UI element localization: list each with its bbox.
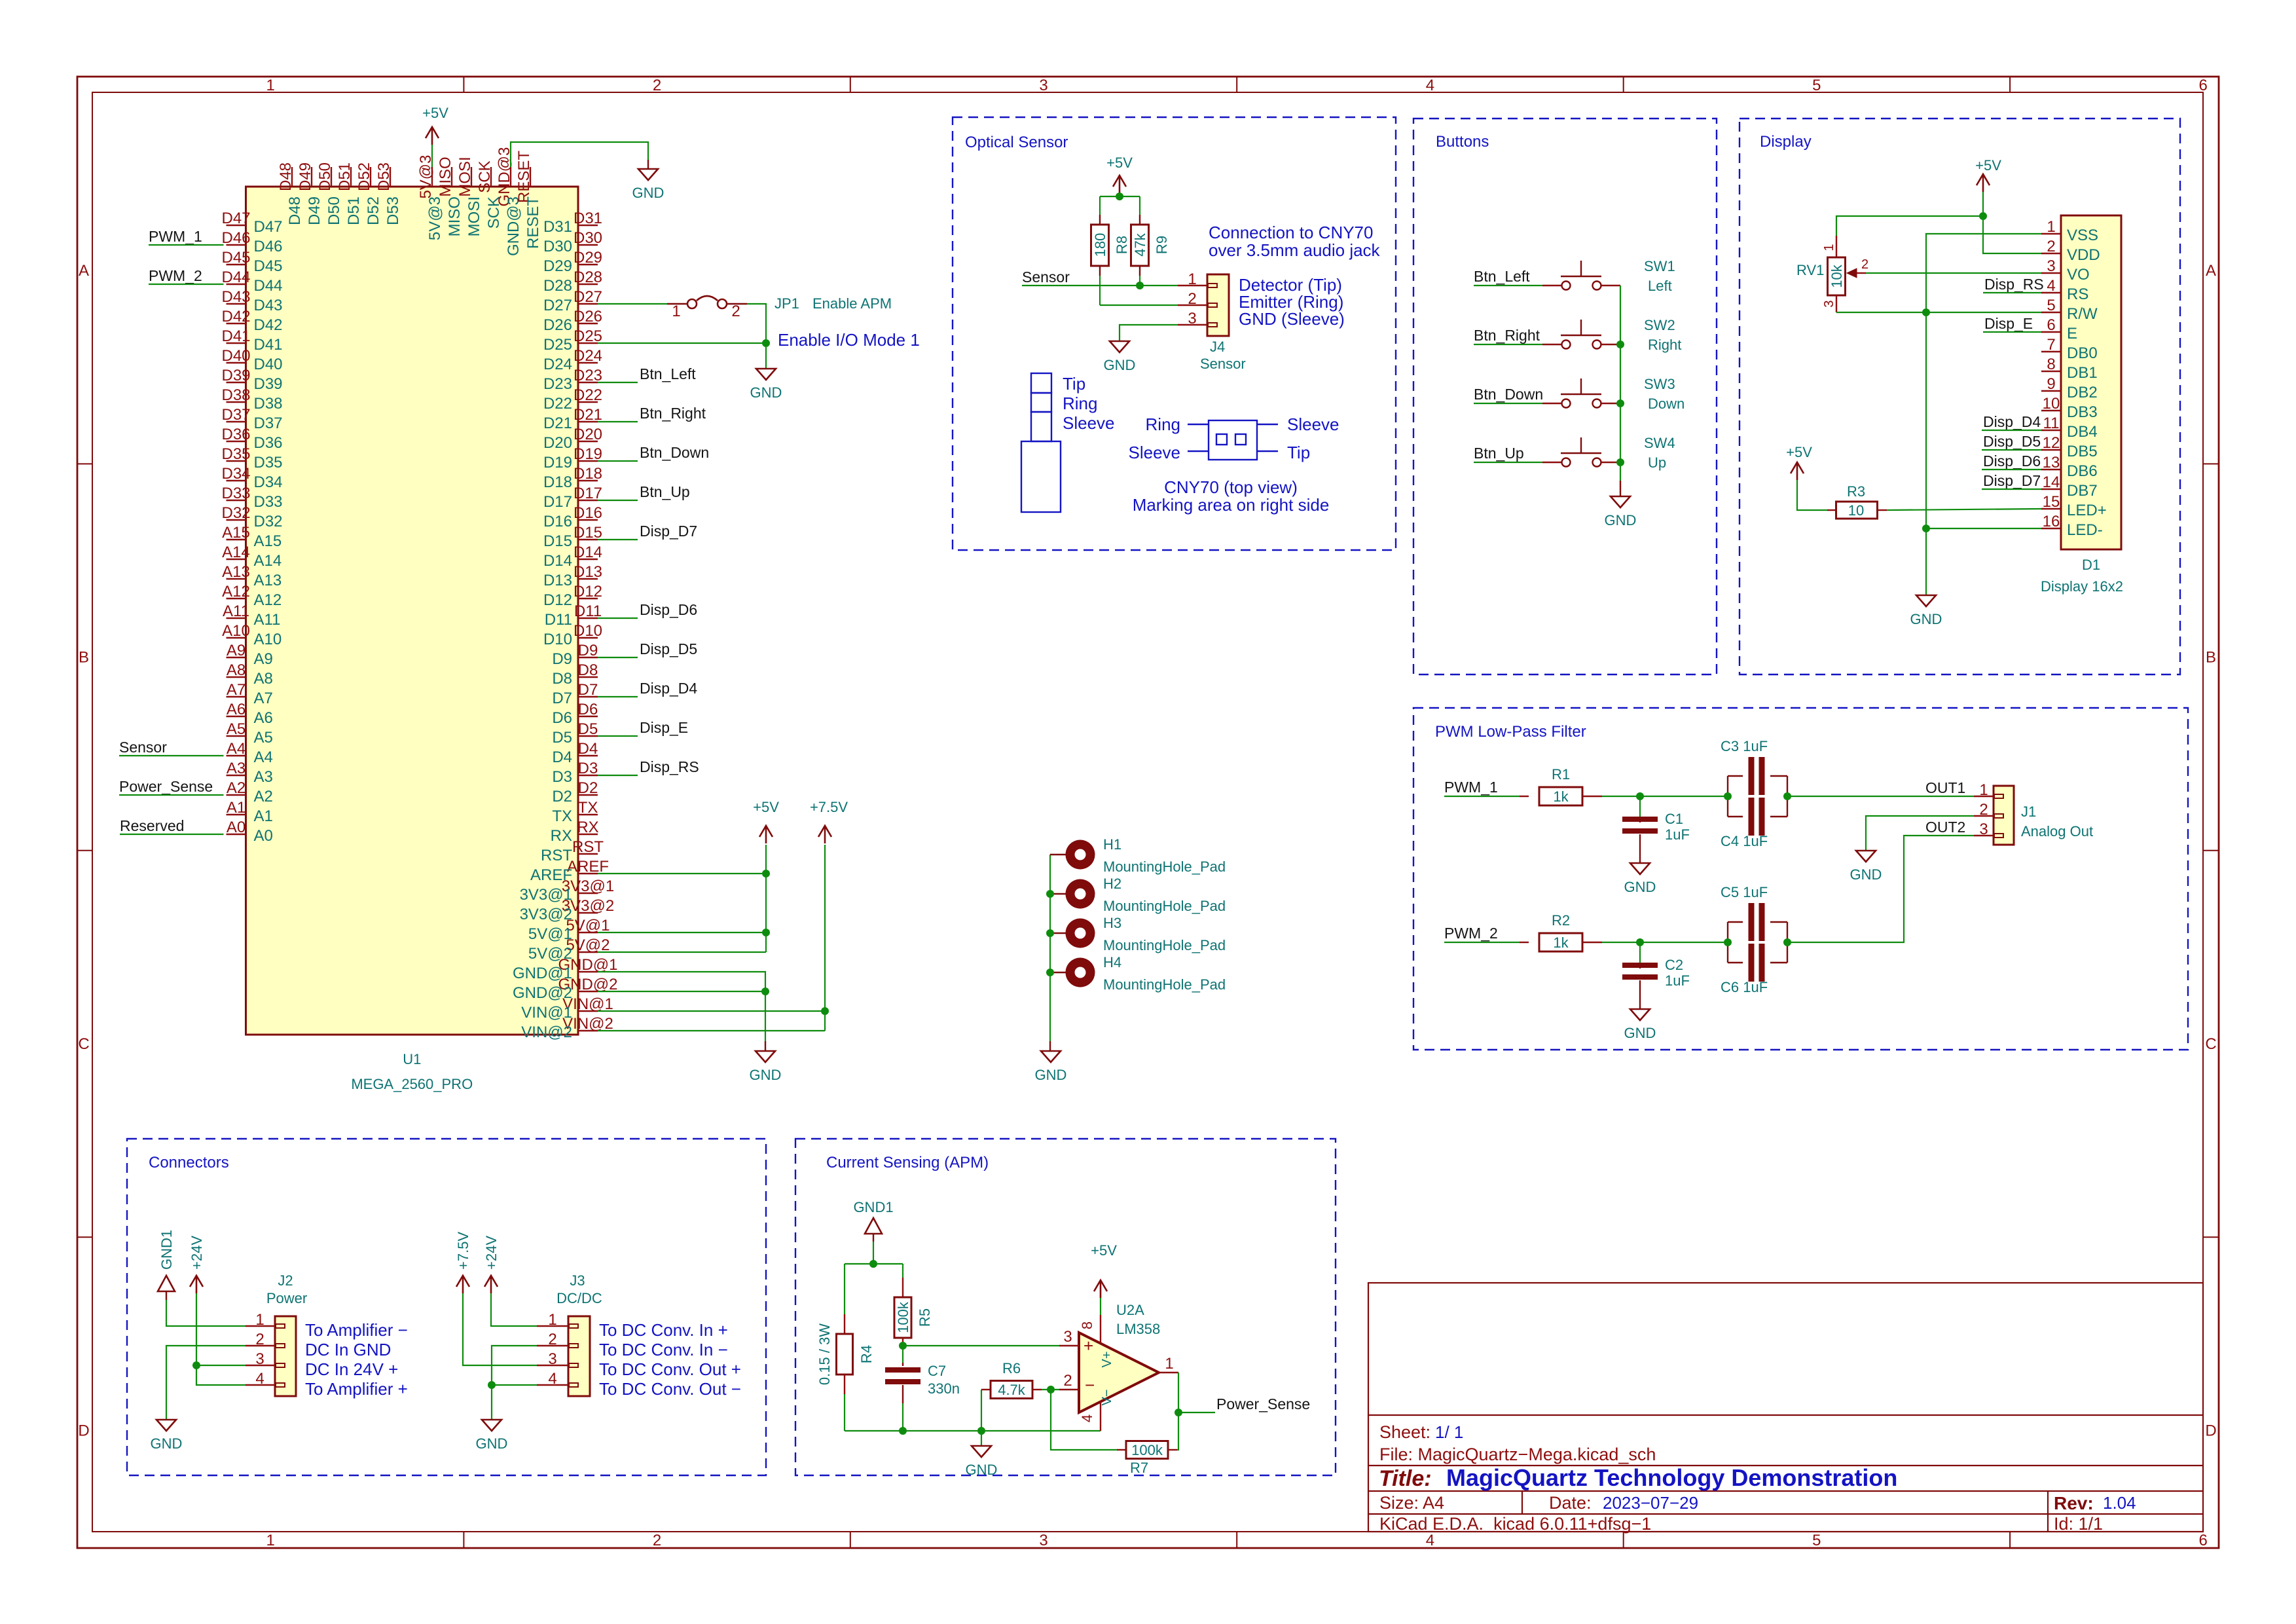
display D1 body bbox=[2061, 215, 2121, 549]
svg-text:5: 5 bbox=[2047, 297, 2055, 314]
U1 right pin D17 bbox=[578, 500, 598, 501]
svg-text:H1: H1 bbox=[1103, 836, 1121, 853]
D1 pin 3 VO bbox=[2041, 272, 2061, 274]
svg-text:V+: V+ bbox=[1100, 1351, 1114, 1367]
svg-text:Date:: Date: bbox=[1549, 1493, 1592, 1513]
wire PWM_2 to D44 bbox=[149, 284, 224, 285]
svg-text:2: 2 bbox=[1063, 1372, 1072, 1390]
wire C1 to ground bbox=[1639, 844, 1641, 863]
svg-text:16: 16 bbox=[2043, 513, 2060, 530]
wire Disp_E to pin6 bbox=[1983, 331, 2041, 333]
svg-text:D36: D36 bbox=[221, 426, 250, 443]
svg-text:V−: V− bbox=[1100, 1389, 1114, 1405]
svg-text:Sleeve: Sleeve bbox=[1287, 415, 1339, 434]
svg-text:Analog Out: Analog Out bbox=[2021, 823, 2093, 840]
svg-text:D49: D49 bbox=[306, 196, 323, 225]
svg-text:DC/DC: DC/DC bbox=[556, 1290, 602, 1306]
svg-text:A4: A4 bbox=[254, 748, 273, 766]
svg-text:Btn_Left: Btn_Left bbox=[640, 365, 696, 382]
svg-text:GND: GND bbox=[1910, 611, 1942, 627]
svg-text:PWM_1: PWM_1 bbox=[149, 228, 202, 245]
U2A pin 4 (V-) bbox=[1100, 1401, 1101, 1431]
svg-text:Power_Sense: Power_Sense bbox=[119, 778, 213, 795]
svg-text:PWM_2: PWM_2 bbox=[1444, 925, 1498, 942]
U1 right pin D15 bbox=[578, 539, 598, 540]
IC U1 MEGA_2560_PRO body bbox=[246, 187, 579, 1035]
mounting hole H4 bbox=[1066, 958, 1095, 987]
svg-text:JP1: JP1 bbox=[774, 295, 799, 312]
svg-text:6: 6 bbox=[2199, 1532, 2208, 1549]
svg-text:1: 1 bbox=[548, 1311, 556, 1329]
wire +5V down bbox=[1982, 192, 1984, 216]
svg-text:Disp_D7: Disp_D7 bbox=[640, 523, 697, 540]
svg-text:R7: R7 bbox=[1130, 1460, 1148, 1476]
svg-text:A15: A15 bbox=[222, 524, 250, 542]
svg-text:Btn_Right: Btn_Right bbox=[640, 405, 706, 422]
U1 right pin RX bbox=[578, 834, 598, 835]
U1 right pin D5 bbox=[578, 735, 598, 737]
junction bbox=[1783, 938, 1791, 946]
ground symbol J3 bbox=[482, 1420, 501, 1431]
U1 right pin D11 bbox=[578, 618, 598, 619]
wire +24V to J3 pin1 bbox=[491, 1293, 537, 1326]
U1 right pin 5V@1 bbox=[578, 932, 598, 933]
svg-text:4: 4 bbox=[1426, 1532, 1434, 1549]
U1 left pin A15 bbox=[227, 539, 246, 540]
U1 left pin A2 bbox=[227, 794, 246, 796]
ground symbol below mounting holes bbox=[1041, 1051, 1061, 1062]
svg-text:DB7: DB7 bbox=[2067, 482, 2098, 500]
svg-text:DB5: DB5 bbox=[2067, 443, 2098, 460]
svg-text:Connectors: Connectors bbox=[149, 1154, 229, 1172]
svg-text:GND: GND bbox=[1104, 357, 1136, 373]
svg-text:J1: J1 bbox=[2021, 803, 2036, 820]
svg-text:SW2: SW2 bbox=[1644, 317, 1675, 333]
wire C3/C4 to J1 pin1 bbox=[1787, 796, 1974, 797]
svg-text:To DC Conv. Out +: To DC Conv. Out + bbox=[599, 1359, 741, 1379]
wire R9 to node bbox=[1139, 276, 1140, 286]
wire feedback down bbox=[1051, 1390, 1117, 1450]
wire Sensor to A4 bbox=[119, 755, 224, 756]
svg-text:+: + bbox=[1084, 1336, 1093, 1356]
junction bbox=[1047, 1386, 1055, 1393]
U1 right pin D12 bbox=[578, 598, 598, 599]
svg-text:Btn_Up: Btn_Up bbox=[1474, 445, 1524, 462]
svg-text:D28: D28 bbox=[543, 277, 572, 295]
U1 right pin AREF bbox=[578, 873, 598, 874]
wire +5V to RV1 bbox=[1836, 216, 1983, 236]
U1 right pin 3V3@2 bbox=[578, 912, 598, 913]
capacitor C3 1uF (top of bridge) bbox=[1727, 776, 1728, 796]
U1 top pin D50 bbox=[331, 167, 332, 187]
U1 right pin D8 bbox=[578, 676, 598, 678]
svg-text:MountingHole_Pad: MountingHole_Pad bbox=[1103, 937, 1226, 953]
svg-text:3V3@2: 3V3@2 bbox=[520, 906, 572, 923]
svg-text:Tip: Tip bbox=[1063, 374, 1085, 394]
svg-text:GND (Sleeve): GND (Sleeve) bbox=[1239, 309, 1345, 329]
svg-text:GND: GND bbox=[966, 1462, 998, 1478]
capacitor C5 1uF (top of bridge) bbox=[1727, 922, 1728, 942]
svg-text:R5: R5 bbox=[917, 1308, 933, 1327]
connector J1 body bbox=[1994, 786, 2014, 845]
connector J4 body bbox=[1207, 274, 1229, 336]
junction bbox=[899, 1427, 907, 1435]
wire Disp_D7 to D1 bbox=[1982, 489, 2041, 490]
svg-text:+5V: +5V bbox=[1975, 157, 2001, 174]
svg-text:D28: D28 bbox=[574, 268, 602, 286]
svg-text:3: 3 bbox=[2047, 257, 2055, 275]
svg-text:D42: D42 bbox=[221, 308, 250, 325]
svg-text:D10: D10 bbox=[574, 622, 602, 640]
U1 left pin D35 bbox=[227, 460, 246, 462]
svg-text:D21: D21 bbox=[543, 415, 572, 432]
svg-text:DB0: DB0 bbox=[2067, 344, 2098, 362]
U1 left pin A9 bbox=[227, 657, 246, 658]
svg-text:+7.5V: +7.5V bbox=[810, 799, 848, 815]
ground symbol APM bbox=[972, 1446, 991, 1457]
op-amp U2A LM358 bbox=[1079, 1333, 1159, 1412]
resistor R3 bbox=[1827, 509, 1836, 511]
svg-text:C5 1uF: C5 1uF bbox=[1721, 884, 1768, 900]
U1 top pin SCK bbox=[490, 167, 492, 187]
svg-text:D1: D1 bbox=[2082, 557, 2100, 573]
svg-text:D32: D32 bbox=[221, 504, 250, 522]
ground symbol J2 bbox=[156, 1420, 176, 1431]
wire D-pin to Btn_Up bbox=[598, 500, 638, 501]
capacitor C6 1uF (bottom of bridge) bbox=[1727, 942, 1728, 963]
U1 right pin VIN@1 bbox=[578, 1010, 598, 1012]
svg-text:D38: D38 bbox=[221, 386, 250, 404]
ground symbol C2 bbox=[1630, 1009, 1650, 1020]
svg-text:A13: A13 bbox=[222, 563, 250, 581]
svg-text:GND@3: GND@3 bbox=[505, 196, 522, 256]
U1 left pin D36 bbox=[227, 441, 246, 442]
svg-text:D50: D50 bbox=[316, 162, 334, 191]
U1 right pin D30 bbox=[578, 244, 598, 246]
svg-text:3: 3 bbox=[1979, 821, 1988, 838]
svg-text:D5: D5 bbox=[552, 729, 572, 747]
U1 left pin A0 bbox=[227, 834, 246, 835]
title block bbox=[1368, 1283, 2203, 1532]
U1 right pin D29 bbox=[578, 264, 598, 265]
switch SW4 Up bbox=[1542, 462, 1561, 463]
junction bbox=[1922, 525, 1930, 532]
wire to R9 bbox=[1139, 196, 1140, 215]
svg-text:D48: D48 bbox=[286, 196, 304, 225]
svg-text:RS: RS bbox=[2067, 286, 2088, 303]
wire Disp_D6 to D1 bbox=[1982, 469, 2041, 470]
svg-text:MOSI: MOSI bbox=[465, 196, 483, 236]
wire C2 to ground bbox=[1639, 990, 1641, 1009]
U1 right pin VIN@2 bbox=[578, 1030, 598, 1031]
svg-text:D13: D13 bbox=[574, 563, 602, 581]
wire rail to gnd symbol bbox=[981, 1431, 982, 1446]
svg-text:MEGA_2560_PRO: MEGA_2560_PRO bbox=[351, 1076, 473, 1092]
svg-text:D17: D17 bbox=[543, 493, 572, 511]
wire D-pin to Disp_D5 bbox=[598, 657, 638, 658]
svg-text:C6 1uF: C6 1uF bbox=[1721, 979, 1768, 995]
wire R5 to op-amp pin3 bbox=[903, 1345, 1059, 1346]
svg-text:Disp_D6: Disp_D6 bbox=[640, 601, 697, 618]
U1 left pin D47 bbox=[227, 225, 246, 226]
wire +5V to VDD pin2 bbox=[1983, 216, 2041, 253]
svg-text:D45: D45 bbox=[221, 249, 250, 267]
svg-text:A3: A3 bbox=[227, 760, 246, 777]
wire Reserved to A0 bbox=[120, 834, 224, 835]
svg-text:Enable I/O Mode 1: Enable I/O Mode 1 bbox=[778, 330, 920, 350]
svg-text:D37: D37 bbox=[254, 415, 283, 432]
svg-text:Disp_RS: Disp_RS bbox=[640, 758, 699, 775]
svg-text:Tip: Tip bbox=[1287, 443, 1310, 462]
svg-text:Size: A4: Size: A4 bbox=[1379, 1493, 1444, 1513]
U1 right pin D25 bbox=[578, 342, 598, 344]
svg-text:Disp_D7: Disp_D7 bbox=[1983, 472, 2041, 489]
svg-text:H4: H4 bbox=[1103, 954, 1121, 970]
svg-text:VSS: VSS bbox=[2067, 227, 2098, 244]
U1 right pin D6 bbox=[578, 716, 598, 717]
wire D27 to JP1 pin1 bbox=[598, 303, 667, 304]
svg-text:A9: A9 bbox=[227, 642, 246, 659]
svg-text:D26: D26 bbox=[543, 316, 572, 334]
svg-text:10: 10 bbox=[2043, 395, 2060, 413]
svg-text:+5V: +5V bbox=[753, 799, 779, 815]
wire VIN@2 to +7.5V rail bbox=[598, 1030, 825, 1031]
svg-text:2: 2 bbox=[2047, 238, 2055, 255]
mounting hole H1 bbox=[1066, 840, 1095, 870]
U1 right pin GND@2 bbox=[578, 991, 598, 992]
wire RV1 bottom to R/W pin5 bbox=[1836, 312, 2041, 313]
U1 right pin D23 bbox=[578, 382, 598, 383]
svg-text:Ring: Ring bbox=[1063, 394, 1097, 413]
svg-text:9: 9 bbox=[2047, 375, 2055, 393]
svg-text:D10: D10 bbox=[543, 631, 572, 648]
wire Power_Sense to A2 bbox=[119, 794, 224, 796]
svg-text:+24V: +24V bbox=[483, 1236, 500, 1270]
svg-text:U1: U1 bbox=[403, 1051, 421, 1067]
svg-text:D44: D44 bbox=[254, 277, 283, 295]
wire D-pin to Btn_Left bbox=[598, 382, 638, 383]
resistor R6 4.7k bbox=[981, 1389, 991, 1390]
svg-text:D50: D50 bbox=[325, 196, 343, 225]
svg-text:1: 1 bbox=[1822, 244, 1836, 251]
wire LED- pin16 to gnd rail bbox=[1926, 528, 2041, 529]
junction bbox=[1616, 399, 1624, 407]
svg-text:D2: D2 bbox=[578, 779, 598, 797]
wire R2 to node bbox=[1602, 942, 1728, 943]
svg-text:4: 4 bbox=[1426, 77, 1434, 94]
U1 left pin D38 bbox=[227, 401, 246, 403]
svg-text:2: 2 bbox=[653, 1532, 661, 1549]
junction bbox=[1616, 458, 1624, 466]
svg-text:D51: D51 bbox=[336, 162, 354, 191]
svg-text:Connection to CNY70: Connection to CNY70 bbox=[1209, 223, 1373, 242]
svg-text:Disp_D5: Disp_D5 bbox=[640, 640, 697, 657]
svg-text:180: 180 bbox=[1092, 233, 1108, 257]
svg-text:RST: RST bbox=[572, 838, 604, 856]
svg-text:1: 1 bbox=[255, 1311, 264, 1329]
svg-text:D51: D51 bbox=[345, 196, 363, 225]
wire H1 stub bbox=[1050, 854, 1066, 855]
junction bbox=[821, 1007, 829, 1015]
svg-text:GND: GND bbox=[750, 384, 782, 401]
svg-text:RESET: RESET bbox=[524, 196, 542, 249]
resistor R8 bbox=[1099, 215, 1101, 225]
wire down to R5 bbox=[902, 1264, 903, 1278]
svg-text:A3: A3 bbox=[254, 768, 273, 786]
svg-text:A14: A14 bbox=[222, 544, 250, 561]
wire J3 pin2 to gnd bbox=[492, 1346, 537, 1385]
svg-text:1k: 1k bbox=[1553, 788, 1569, 805]
svg-text:D: D bbox=[2205, 1422, 2216, 1439]
svg-text:Disp_D6: Disp_D6 bbox=[1983, 452, 2041, 470]
svg-text:Btn_Down: Btn_Down bbox=[640, 444, 709, 461]
U1 right pin 5V@2 bbox=[578, 951, 598, 953]
svg-text:13: 13 bbox=[2043, 454, 2060, 471]
wire GND@1 down bbox=[598, 972, 765, 991]
svg-text:U2A: U2A bbox=[1116, 1302, 1144, 1318]
svg-text:Sensor: Sensor bbox=[1022, 268, 1070, 286]
junction bbox=[869, 1260, 877, 1268]
svg-text:2023−07−29: 2023−07−29 bbox=[1603, 1493, 1698, 1513]
svg-text:R3: R3 bbox=[1847, 483, 1865, 500]
svg-text:CNY70 (top view): CNY70 (top view) bbox=[1164, 477, 1298, 497]
svg-text:Up: Up bbox=[1648, 454, 1666, 471]
wire bus to gnd bbox=[1620, 481, 1621, 496]
svg-text:D13: D13 bbox=[543, 572, 572, 589]
svg-text:D8: D8 bbox=[552, 670, 572, 688]
svg-text:PWM_2: PWM_2 bbox=[149, 267, 202, 284]
svg-text:File: MagicQuartz−Mega.kicad_s: File: MagicQuartz−Mega.kicad_sch bbox=[1379, 1445, 1656, 1464]
svg-text:Display: Display bbox=[1760, 133, 1812, 151]
D1 pin 2 VDD bbox=[2041, 253, 2061, 254]
wire PWM_1 to D46 bbox=[149, 244, 224, 246]
svg-text:A10: A10 bbox=[254, 631, 282, 648]
U1 right pin D20 bbox=[578, 441, 598, 442]
svg-text:R/W: R/W bbox=[2067, 305, 2098, 323]
svg-text:D33: D33 bbox=[254, 493, 283, 511]
svg-text:A10: A10 bbox=[222, 622, 250, 640]
svg-text:A8: A8 bbox=[254, 670, 273, 688]
svg-text:2: 2 bbox=[731, 303, 740, 320]
U1 left pin A14 bbox=[227, 559, 246, 560]
svg-text:+5V: +5V bbox=[1106, 155, 1133, 171]
svg-text:LED+: LED+ bbox=[2067, 502, 2107, 519]
svg-text:10k: 10k bbox=[1829, 264, 1845, 287]
wire D-pin to Disp_D6 bbox=[598, 618, 638, 619]
wire Sensor to J4 pin1 bbox=[1022, 285, 1178, 286]
svg-text:A9: A9 bbox=[254, 650, 273, 668]
wire GND1 to J2 pin1 bbox=[166, 1300, 246, 1326]
capacitor C2 1uF bbox=[1639, 942, 1641, 963]
svg-text:A0: A0 bbox=[227, 819, 246, 836]
svg-text:4.7k: 4.7k bbox=[998, 1382, 1026, 1398]
U1 top pin D53 bbox=[390, 167, 391, 187]
J3 pin 4 bbox=[537, 1384, 568, 1386]
junction bbox=[1636, 792, 1644, 800]
connector J2 body bbox=[275, 1316, 296, 1396]
section box PWM Low-Pass Filter bbox=[1413, 708, 2188, 1050]
svg-text:DC In GND: DC In GND bbox=[305, 1340, 391, 1359]
U2A pin 3 (+) bbox=[1059, 1345, 1079, 1346]
svg-text:A5: A5 bbox=[254, 729, 273, 747]
svg-text:2: 2 bbox=[255, 1331, 264, 1348]
svg-text:D7: D7 bbox=[552, 690, 572, 707]
wire J1 pin3 to PWM_2 chain bbox=[1787, 836, 1974, 942]
U1 right pin D18 bbox=[578, 480, 598, 481]
D1 pin 16 LED- bbox=[2041, 528, 2061, 529]
wire R4 to rail bbox=[844, 1394, 845, 1431]
svg-text:D23: D23 bbox=[543, 375, 572, 393]
U1 top pin 5V@3 bbox=[431, 167, 433, 187]
U1 right pin 3V3@1 bbox=[578, 893, 598, 894]
svg-text:Enable APM: Enable APM bbox=[812, 295, 892, 312]
svg-text:0.15 / 3W: 0.15 / 3W bbox=[816, 1323, 833, 1385]
D1 pin 6 E bbox=[2041, 331, 2061, 333]
wire D-pin to Btn_Right bbox=[598, 421, 638, 422]
svg-text:D16: D16 bbox=[574, 504, 602, 522]
svg-text:J4: J4 bbox=[1210, 339, 1225, 355]
svg-text:D47: D47 bbox=[254, 218, 283, 236]
wire VSS pin1 to gnd rail bbox=[1926, 234, 2041, 528]
J3 pin 2 bbox=[537, 1345, 568, 1346]
ground symbol C1 bbox=[1630, 863, 1650, 874]
section box Display bbox=[1740, 119, 2180, 674]
wire R8 branch to J4 pin2 bbox=[1100, 304, 1178, 306]
wire R6 left leg bbox=[981, 1390, 982, 1431]
svg-text:D20: D20 bbox=[543, 434, 572, 452]
U1 left pin D43 bbox=[227, 303, 246, 304]
svg-text:Rev:: Rev: bbox=[2054, 1493, 2094, 1513]
wire +24V to J2 pin3 bbox=[196, 1293, 246, 1365]
junction bbox=[762, 929, 770, 936]
wire 5V@3 to +5V bbox=[431, 145, 433, 167]
svg-text:GND: GND bbox=[1605, 512, 1637, 528]
svg-text:D39: D39 bbox=[221, 367, 250, 384]
svg-text:PWM_1: PWM_1 bbox=[1444, 779, 1498, 796]
D1 pin 14 DB7 bbox=[2041, 489, 2061, 490]
svg-text:4: 4 bbox=[255, 1370, 264, 1388]
switch SW3 Down bbox=[1542, 403, 1561, 404]
resistor R7 100k bbox=[1117, 1449, 1126, 1450]
wire node to C7 bbox=[902, 1346, 903, 1363]
svg-text:SW1: SW1 bbox=[1644, 258, 1675, 274]
svg-text:Optical Sensor: Optical Sensor bbox=[965, 134, 1068, 151]
svg-text:D31: D31 bbox=[574, 210, 602, 227]
svg-text:MountingHole_Pad: MountingHole_Pad bbox=[1103, 898, 1226, 914]
U1 top pin D49 bbox=[311, 167, 312, 187]
svg-text:C2: C2 bbox=[1665, 957, 1683, 973]
svg-text:3: 3 bbox=[255, 1350, 264, 1368]
svg-text:A: A bbox=[79, 262, 89, 280]
svg-text:C7: C7 bbox=[928, 1363, 946, 1379]
svg-text:D: D bbox=[78, 1422, 89, 1439]
U1 left pin A12 bbox=[227, 598, 246, 599]
ground symbol buttons bbox=[1611, 496, 1630, 507]
U1 left pin A6 bbox=[227, 716, 246, 717]
svg-text:D41: D41 bbox=[221, 327, 250, 345]
wire GND1 node bbox=[873, 1242, 874, 1264]
svg-text:12: 12 bbox=[2043, 434, 2060, 452]
svg-text:D24: D24 bbox=[574, 347, 602, 365]
svg-text:D43: D43 bbox=[254, 297, 283, 314]
mounting hole H3 bbox=[1066, 919, 1095, 948]
svg-text:Disp_E: Disp_E bbox=[640, 719, 688, 736]
wire H3 stub bbox=[1050, 932, 1066, 934]
svg-text:5: 5 bbox=[1812, 77, 1821, 94]
svg-text:D35: D35 bbox=[254, 454, 283, 471]
svg-text:DB1: DB1 bbox=[2067, 364, 2098, 382]
svg-text:D9: D9 bbox=[578, 642, 598, 659]
